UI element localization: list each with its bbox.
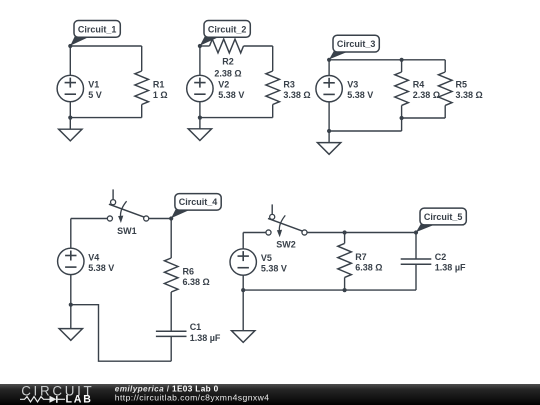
- voltage source V4: [58, 248, 84, 274]
- callout Circuit_3: [329, 35, 379, 59]
- wire V4 to SW1: [71, 218, 108, 220]
- capacitor C2: [401, 259, 432, 264]
- callout Circuit_5: [416, 208, 466, 232]
- wire V5 to SW2: [243, 232, 266, 234]
- wire V2 bottom lead: [199, 102, 201, 118]
- wire V3 top lead: [328, 60, 330, 76]
- footer bar: [0, 384, 540, 405]
- svg-text:2.38 Ω: 2.38 Ω: [413, 90, 440, 100]
- svg-text:Circuit_5: Circuit_5: [424, 212, 463, 222]
- label C2 value: [435, 263, 466, 273]
- wire R6 to C1: [170, 292, 172, 331]
- node at R4 bottom: [400, 116, 404, 120]
- voltage source V1: [57, 75, 83, 101]
- node at C2 top / net Circuit_5: [414, 230, 418, 234]
- wire top of Circuit_3: [329, 59, 445, 61]
- ground of Circuit_1: [59, 129, 82, 141]
- footer title line: [115, 385, 219, 394]
- svg-text:C2: C2: [435, 252, 447, 262]
- node at V1 bottom: [68, 116, 72, 120]
- switch SW1: [107, 189, 148, 223]
- voltage source V5: [230, 249, 256, 275]
- svg-text:3.38 Ω: 3.38 Ω: [456, 90, 483, 100]
- wire bottom of Circuit_1: [70, 117, 141, 119]
- wire R2 to right corner: [244, 45, 273, 47]
- resistor R2: [210, 39, 244, 53]
- node at V3 bottom: [327, 129, 331, 133]
- svg-text:LAB: LAB: [66, 393, 93, 405]
- wire to ground: [242, 290, 244, 331]
- ground of Circuit_3: [317, 143, 340, 155]
- node at V2 top / net Circuit_2: [198, 44, 202, 48]
- callout Circuit_2: [200, 21, 250, 46]
- svg-text:R5: R5: [456, 79, 468, 89]
- wire to ground: [328, 131, 330, 143]
- resistor R4: [395, 60, 409, 118]
- label V1 name: [88, 80, 99, 90]
- svg-text:1 Ω: 1 Ω: [153, 90, 168, 100]
- wire V1 top lead: [69, 46, 71, 75]
- svg-text:Circuit_4: Circuit_4: [179, 197, 218, 207]
- svg-text:2.38 Ω: 2.38 Ω: [214, 68, 241, 78]
- wire R4 bottom to bottom rail: [401, 118, 403, 131]
- node at V1 top / net Circuit_1: [68, 44, 72, 48]
- label V2 name: [218, 80, 229, 90]
- label V3 name: [347, 80, 358, 90]
- svg-text:R4: R4: [413, 79, 425, 89]
- ground of Circuit_5: [232, 331, 255, 343]
- resistor R5: [438, 60, 452, 118]
- svg-text:http://circuitlab.com/c8yxmn4s: http://circuitlab.com/c8yxmn4sgnxw4: [115, 392, 270, 402]
- wire V3 bottom lead: [328, 102, 330, 131]
- svg-text:5.38 V: 5.38 V: [88, 263, 114, 273]
- label R6 value: [183, 277, 210, 287]
- wire V4 top lead: [70, 219, 72, 249]
- svg-text:5.38 V: 5.38 V: [218, 90, 244, 100]
- wire SW2 to R7: [307, 232, 345, 234]
- svg-text:R1: R1: [153, 79, 165, 89]
- label R6 name: [183, 266, 195, 276]
- capacitor C1: [156, 331, 187, 336]
- svg-text:SW2: SW2: [276, 240, 296, 250]
- svg-text:5.38 V: 5.38 V: [347, 90, 373, 100]
- svg-text:3.38 Ω: 3.38 Ω: [283, 90, 310, 100]
- label V2 value: [218, 90, 244, 100]
- node at V2 bottom: [198, 116, 202, 120]
- label R3 name: [283, 79, 295, 89]
- node at V5 bottom: [241, 288, 245, 292]
- wire bottom of Circuit_4: [71, 305, 171, 362]
- wire V1 bottom lead: [69, 102, 71, 118]
- footer url line: [115, 392, 270, 402]
- resistor R7: [338, 233, 352, 291]
- node at R4 top: [400, 58, 404, 62]
- wire from Circuit_2 node to R2: [200, 45, 210, 47]
- node at R7 bottom: [343, 288, 347, 292]
- label C2 name: [435, 252, 447, 262]
- label V3 value: [347, 90, 373, 100]
- svg-text:V5: V5: [261, 253, 272, 263]
- svg-text:1.38 µF: 1.38 µF: [190, 333, 221, 343]
- wire C2 bottom lead: [415, 264, 417, 290]
- voltage source V2: [187, 75, 213, 101]
- label R3 value: [283, 90, 310, 100]
- label R5 name: [456, 79, 468, 89]
- wire top of Circuit_1: [70, 45, 141, 47]
- ground of Circuit_2: [188, 129, 211, 141]
- label R7 name: [355, 252, 367, 262]
- wire V5 top lead: [242, 233, 244, 249]
- wire to ground: [70, 305, 72, 329]
- wire C1 bottom lead: [170, 336, 172, 361]
- svg-text:V3: V3: [347, 80, 358, 90]
- voltage source V3: [316, 76, 342, 102]
- label R7 value: [355, 263, 382, 273]
- svg-text:Circuit_1: Circuit_1: [78, 24, 117, 34]
- wire bottom of Circuit_3: [329, 130, 402, 132]
- node at Circuit_4 net: [169, 216, 173, 220]
- node at V4 bottom: [69, 303, 73, 307]
- label V5 value: [261, 263, 287, 273]
- wire joining R4 and R5 bottoms: [402, 117, 446, 119]
- wire C2 top lead: [415, 233, 417, 260]
- svg-text:1.38 µF: 1.38 µF: [435, 263, 466, 273]
- svg-text:R7: R7: [355, 252, 367, 262]
- svg-text:Circuit_3: Circuit_3: [337, 39, 376, 49]
- label V5 name: [261, 253, 272, 263]
- label R2 value: [214, 68, 241, 78]
- svg-text:SW1: SW1: [117, 226, 137, 236]
- callout Circuit_1: [70, 21, 120, 46]
- label C1 name: [190, 322, 202, 332]
- label R1 value: [153, 90, 168, 100]
- node at R7 top: [343, 230, 347, 234]
- wire bottom of Circuit_2: [200, 117, 273, 119]
- label R4 value: [413, 90, 440, 100]
- callout Circuit_4: [171, 194, 221, 219]
- label SW1 name: [117, 226, 137, 236]
- label R4 name: [413, 79, 425, 89]
- resistor R1: [135, 46, 149, 118]
- svg-text:Circuit_2: Circuit_2: [208, 24, 247, 34]
- svg-text:6.38 Ω: 6.38 Ω: [355, 263, 382, 273]
- CircuitLab logo: [20, 383, 94, 405]
- resistor R3: [266, 46, 280, 118]
- svg-text:6.38 Ω: 6.38 Ω: [183, 277, 210, 287]
- wire to ground: [199, 118, 201, 129]
- label C1 value: [190, 333, 221, 343]
- wire bottom of Circuit_5: [243, 289, 416, 291]
- svg-text:5 V: 5 V: [88, 90, 102, 100]
- switch SW2: [266, 204, 307, 237]
- svg-text:V1: V1: [88, 80, 99, 90]
- ground of Circuit_4: [59, 329, 82, 341]
- svg-text:R6: R6: [183, 266, 195, 276]
- wire node down to R6: [170, 219, 172, 259]
- label V1 value: [88, 90, 102, 100]
- label R5 value: [456, 90, 483, 100]
- label R2 name: [222, 57, 234, 67]
- label SW2 name: [276, 240, 296, 250]
- wire R7 to C2 node: [345, 232, 416, 234]
- label R1 name: [153, 79, 165, 89]
- wire V4 bottom lead: [70, 275, 72, 305]
- node at V3 top / net Circuit_3: [327, 58, 331, 62]
- svg-text:R3: R3: [283, 79, 295, 89]
- svg-text:5.38 V: 5.38 V: [261, 263, 287, 273]
- wire SW1 to node: [149, 218, 171, 220]
- label V4 value: [88, 263, 114, 273]
- wire V5 bottom lead: [242, 275, 244, 290]
- svg-text:V4: V4: [88, 252, 99, 262]
- svg-text:R2: R2: [222, 57, 234, 67]
- wire to ground: [69, 118, 71, 130]
- wire V2 top lead: [199, 46, 201, 75]
- svg-text:V2: V2: [218, 80, 229, 90]
- label V4 name: [88, 252, 99, 262]
- svg-text:C1: C1: [190, 322, 202, 332]
- resistor R6: [164, 258, 178, 292]
